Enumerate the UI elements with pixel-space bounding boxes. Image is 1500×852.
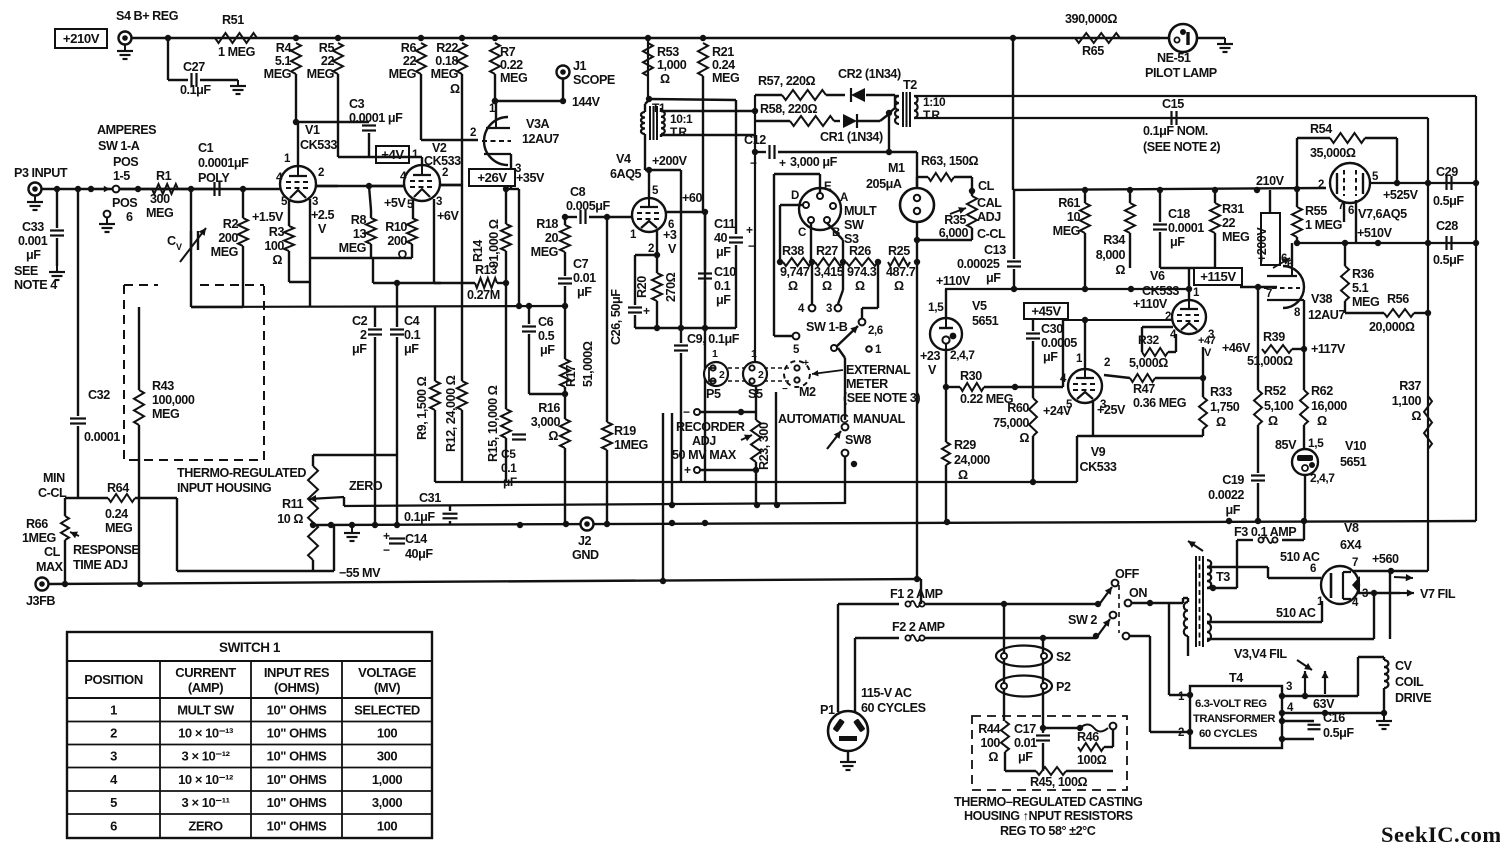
svg-text:R65: R65 bbox=[1082, 44, 1104, 58]
svg-text:AUTOMATIC: AUTOMATIC bbox=[778, 412, 849, 426]
wire +110V row bbox=[945, 286, 1189, 292]
svg-text:R32: R32 bbox=[1138, 333, 1159, 347]
label RESPONSE TIME ADJ bbox=[73, 543, 139, 572]
svg-text:144V: 144V bbox=[572, 95, 601, 109]
svg-text:E: E bbox=[824, 181, 832, 193]
svg-text:9,747: 9,747 bbox=[780, 265, 810, 279]
diode CR1 1N34 bbox=[820, 114, 883, 144]
resistor R56 bbox=[1345, 292, 1431, 334]
capacitor C14 bbox=[383, 529, 433, 561]
capacitor C32 bbox=[70, 189, 120, 498]
wire bbox=[916, 177, 918, 187]
svg-text:C27: C27 bbox=[183, 60, 205, 74]
svg-text:6AQ5: 6AQ5 bbox=[610, 167, 642, 181]
svg-text:T3: T3 bbox=[1216, 570, 1230, 584]
wire bbox=[440, 184, 462, 186]
wire A bbox=[0, 0, 1, 1]
svg-text:R57, 220Ω: R57, 220Ω bbox=[758, 74, 816, 88]
wire M2 bus bbox=[0, 0, 1, 1]
wire T1 top row bbox=[649, 99, 736, 217]
pin 2 bbox=[1318, 179, 1324, 191]
svg-text:SeekIC.com: SeekIC.com bbox=[1381, 822, 1500, 847]
svg-text:24,000: 24,000 bbox=[954, 453, 990, 467]
svg-text:Ω: Ω bbox=[272, 253, 282, 267]
svg-text:Ω: Ω bbox=[894, 279, 904, 293]
svg-text:−: − bbox=[383, 543, 390, 557]
wire bbox=[1042, 638, 1044, 728]
svg-text:SEE: SEE bbox=[14, 264, 38, 278]
svg-text:7: 7 bbox=[1352, 557, 1358, 569]
wire bbox=[662, 413, 664, 581]
table headers bbox=[84, 665, 416, 695]
svg-text:+117V: +117V bbox=[1311, 342, 1346, 356]
svg-text:R3: R3 bbox=[269, 225, 285, 239]
resistor R47 bbox=[1104, 374, 1206, 410]
arrow mark bbox=[1188, 541, 1203, 551]
resistor R29 bbox=[942, 387, 990, 522]
svg-text:TIME ADJ: TIME ADJ bbox=[73, 558, 128, 572]
svg-text:35,000Ω: 35,000Ω bbox=[1310, 146, 1356, 160]
svg-text:MEG: MEG bbox=[500, 71, 528, 85]
pin 5 bbox=[281, 196, 289, 226]
svg-text:C4: C4 bbox=[404, 314, 420, 328]
wire S5 down bbox=[0, 0, 1, 1]
svg-text:0.0022: 0.0022 bbox=[1208, 488, 1244, 502]
pin 7 bbox=[1240, 284, 1277, 300]
svg-text:C10: C10 bbox=[714, 265, 736, 279]
label +525V bbox=[1383, 188, 1419, 202]
wire C bbox=[810, 223, 812, 262]
junction bbox=[840, 259, 846, 265]
svg-text:CK533: CK533 bbox=[1142, 284, 1179, 298]
potentiometer R11 ZERO bbox=[277, 455, 383, 571]
svg-text:+4V: +4V bbox=[381, 147, 404, 162]
svg-text:3: 3 bbox=[436, 196, 442, 208]
wire right inner bbox=[1427, 118, 1429, 571]
wire 510AC top bbox=[1207, 567, 1321, 578]
svg-text:1,000: 1,000 bbox=[657, 58, 687, 72]
svg-text:7: 7 bbox=[1266, 288, 1272, 300]
svg-text:5: 5 bbox=[652, 185, 659, 197]
svg-text:INPUT RES: INPUT RES bbox=[264, 665, 330, 680]
tube V38 12AU7 bbox=[1264, 266, 1345, 322]
svg-text:R2: R2 bbox=[223, 217, 239, 231]
svg-text:C30: C30 bbox=[1041, 322, 1063, 336]
svg-text:RESPONSE: RESPONSE bbox=[73, 543, 139, 557]
svg-text:R26: R26 bbox=[849, 244, 871, 258]
resistor R54 bbox=[1297, 122, 1397, 189]
svg-text:R60: R60 bbox=[1007, 401, 1029, 415]
wire bbox=[702, 76, 704, 211]
svg-text:OFF: OFF bbox=[1115, 567, 1140, 581]
svg-text:2,4,7: 2,4,7 bbox=[1310, 471, 1335, 485]
svg-text:V1: V1 bbox=[305, 123, 320, 137]
wire rail 482 corner bbox=[1030, 436, 1077, 485]
resistor R12 bbox=[444, 375, 467, 482]
pin 1 T4 bbox=[1169, 603, 1193, 703]
svg-text:1: 1 bbox=[1178, 691, 1185, 703]
wire rail520 corner bbox=[0, 0, 1, 1]
connector S2 bbox=[996, 646, 1071, 667]
svg-text:R51: R51 bbox=[222, 13, 244, 27]
svg-text:P3 INPUT: P3 INPUT bbox=[14, 166, 68, 180]
svg-text:R22: R22 bbox=[436, 41, 458, 55]
contact 5 bbox=[793, 333, 800, 356]
svg-text:V8: V8 bbox=[1344, 521, 1359, 535]
svg-text:COIL: COIL bbox=[1395, 675, 1424, 689]
svg-text:6: 6 bbox=[126, 210, 133, 224]
junction bbox=[645, 35, 651, 41]
diode CR2 1N34 bbox=[838, 67, 901, 102]
wire bbox=[672, 392, 776, 505]
svg-text:POS: POS bbox=[113, 155, 138, 169]
svg-text:R63, 150Ω: R63, 150Ω bbox=[921, 154, 979, 168]
label V3V4 FIL bbox=[1234, 647, 1312, 670]
wire bbox=[1040, 725, 1083, 731]
tube V5 5651 bbox=[930, 299, 999, 350]
wire bbox=[529, 393, 565, 395]
svg-text:A: A bbox=[840, 192, 848, 204]
svg-text:R18: R18 bbox=[536, 217, 558, 231]
tube V4 6AQ5 bbox=[610, 152, 666, 232]
variable capacitor Cv bbox=[167, 228, 206, 262]
capacitor C6 bbox=[522, 306, 555, 394]
svg-text:0.18: 0.18 bbox=[435, 54, 458, 68]
wire C3 row bbox=[296, 121, 369, 123]
pin 2 bbox=[316, 167, 338, 186]
svg-text:METER: METER bbox=[846, 377, 888, 391]
wire jog bbox=[506, 189, 519, 306]
switch SW2 lower bbox=[1093, 612, 1130, 640]
label +35V bbox=[516, 171, 545, 185]
svg-text:T.R.: T.R. bbox=[670, 125, 690, 139]
svg-text:8,000: 8,000 bbox=[1096, 248, 1126, 262]
svg-text:μF: μF bbox=[1043, 350, 1058, 364]
svg-text:+: + bbox=[746, 223, 753, 237]
svg-text:1MEG: 1MEG bbox=[22, 531, 57, 545]
svg-text:Ω: Ω bbox=[450, 82, 460, 96]
svg-text:1MEG: 1MEG bbox=[614, 438, 649, 452]
svg-text:+560: +560 bbox=[1372, 552, 1399, 566]
svg-text:0.0001: 0.0001 bbox=[1168, 221, 1204, 235]
wire bbox=[494, 74, 496, 101]
svg-text:2: 2 bbox=[648, 243, 654, 255]
svg-text:μF: μF bbox=[540, 343, 555, 357]
svg-text:R5: R5 bbox=[319, 41, 335, 55]
pin 5 bbox=[1372, 171, 1379, 183]
voltage box +200V vertical bbox=[1255, 190, 1280, 265]
svg-text:R7: R7 bbox=[500, 45, 516, 59]
resistor R66 bbox=[22, 498, 79, 584]
label P3 INPUT bbox=[14, 166, 68, 180]
svg-text:1,5: 1,5 bbox=[1308, 436, 1324, 450]
svg-text:Ω: Ω bbox=[822, 279, 832, 293]
connector P2 bbox=[996, 676, 1071, 697]
pin 6 bbox=[1281, 248, 1292, 266]
svg-text:63V: 63V bbox=[1313, 697, 1335, 711]
resistor R57 bbox=[755, 74, 845, 100]
connector S5 bbox=[743, 348, 767, 401]
label 1,5 V10 bbox=[1308, 436, 1324, 450]
svg-text:0.5μF: 0.5μF bbox=[1433, 253, 1464, 267]
svg-text:+: + bbox=[643, 304, 650, 318]
svg-text:1,000: 1,000 bbox=[372, 772, 403, 787]
junction bbox=[240, 186, 246, 192]
resistor R36 bbox=[1341, 243, 1380, 313]
pin 3 T4 bbox=[1279, 681, 1358, 699]
svg-text:SWITCH 1: SWITCH 1 bbox=[219, 640, 281, 655]
svg-text:C15: C15 bbox=[1162, 97, 1184, 111]
wire T3 primary top bbox=[1183, 597, 1188, 599]
transformer T2 bbox=[857, 78, 946, 127]
junction bbox=[418, 35, 424, 41]
connector MULT SW S3 bbox=[791, 181, 848, 239]
svg-text:Ω: Ω bbox=[397, 248, 407, 262]
svg-text:R54: R54 bbox=[1310, 122, 1332, 136]
svg-text:V: V bbox=[668, 242, 677, 256]
svg-text:270Ω: 270Ω bbox=[664, 272, 678, 302]
contact POS 1-5 bbox=[113, 155, 139, 192]
label +24V bbox=[1043, 404, 1072, 418]
voltage box +4V bbox=[376, 146, 409, 163]
wire bbox=[177, 498, 334, 571]
svg-text:2: 2 bbox=[360, 328, 367, 342]
junction bbox=[335, 35, 341, 41]
tube V1 CK533 bbox=[280, 123, 337, 202]
svg-text:1: 1 bbox=[110, 702, 117, 717]
svg-text:6: 6 bbox=[1281, 253, 1287, 265]
pin 4 bbox=[276, 172, 283, 184]
terminal J3FB bbox=[26, 578, 55, 609]
label V7 6AQ5 bbox=[1358, 207, 1407, 221]
wire pin3 down bbox=[0, 0, 1, 1]
svg-text:R25: R25 bbox=[888, 244, 910, 258]
resistor R5 bbox=[307, 41, 343, 81]
capacitor C4 bbox=[390, 306, 421, 525]
wire bbox=[645, 142, 681, 328]
svg-text:MEG: MEG bbox=[105, 521, 133, 535]
svg-text:R64: R64 bbox=[107, 481, 129, 495]
svg-text:2: 2 bbox=[758, 369, 764, 381]
label +46V bbox=[1222, 341, 1251, 355]
svg-text:R17: R17 bbox=[564, 365, 578, 387]
wire bbox=[1183, 598, 1188, 656]
svg-text:C8: C8 bbox=[570, 185, 586, 199]
svg-text:1: 1 bbox=[412, 149, 419, 161]
svg-text:C-CL: C-CL bbox=[38, 486, 67, 500]
wire bbox=[337, 74, 339, 157]
svg-text:10" OHMS: 10" OHMS bbox=[267, 772, 327, 787]
wire from 2-6 bbox=[862, 265, 878, 318]
pin 3 bbox=[310, 196, 318, 258]
voltage box +26V bbox=[469, 169, 515, 186]
svg-text:0.24: 0.24 bbox=[105, 507, 128, 521]
svg-text:V3,V4 FIL: V3,V4 FIL bbox=[1234, 647, 1287, 661]
svg-text:Ω: Ω bbox=[988, 750, 998, 764]
pin 1 bbox=[489, 101, 496, 121]
terminal J2 GND bbox=[572, 518, 599, 563]
resistor R31 bbox=[1210, 190, 1250, 268]
junction bbox=[135, 186, 141, 192]
wire bbox=[1202, 347, 1204, 378]
svg-text:6,000: 6,000 bbox=[939, 226, 969, 240]
svg-text:J3FB: J3FB bbox=[26, 594, 55, 608]
wire bbox=[1012, 38, 1014, 190]
pin 2 bbox=[648, 230, 657, 255]
svg-text:2: 2 bbox=[318, 167, 324, 179]
wire bbox=[654, 325, 736, 331]
resistor R35 pot bbox=[939, 191, 1003, 240]
pin 4 T4 bbox=[1279, 702, 1384, 716]
svg-text:(AMP): (AMP) bbox=[188, 680, 223, 695]
svg-text:10" OHMS: 10" OHMS bbox=[267, 749, 327, 764]
tube V2 CK533 bbox=[404, 141, 461, 201]
svg-text:+60: +60 bbox=[682, 191, 702, 205]
svg-text:6.3-VOLT REG: 6.3-VOLT REG bbox=[1195, 698, 1267, 710]
svg-text:CL: CL bbox=[44, 545, 61, 559]
wire bbox=[0, 0, 1, 1]
svg-text:C-CL: C-CL bbox=[977, 227, 1006, 241]
svg-text:F1 2 AMP: F1 2 AMP bbox=[890, 587, 943, 601]
svg-text:10" OHMS: 10" OHMS bbox=[267, 726, 327, 741]
fuse F2 2AMP bbox=[855, 620, 1096, 641]
label +200V bbox=[652, 154, 688, 168]
wire bbox=[888, 113, 890, 152]
dashed box casting bbox=[972, 716, 1127, 790]
label +510V bbox=[1357, 226, 1393, 240]
resistor R3 bbox=[264, 225, 310, 282]
svg-text:C: C bbox=[798, 227, 806, 239]
junction bbox=[54, 186, 60, 192]
svg-text:3,415: 3,415 bbox=[814, 265, 844, 279]
wire bbox=[1062, 320, 1064, 387]
pin 5 bbox=[1066, 399, 1073, 411]
svg-text:V7,6AQ5: V7,6AQ5 bbox=[1358, 207, 1407, 221]
svg-text:V: V bbox=[176, 242, 182, 252]
svg-text:1: 1 bbox=[751, 348, 757, 360]
svg-text:C16: C16 bbox=[1323, 711, 1345, 725]
wire bbox=[421, 139, 478, 141]
svg-text:R37: R37 bbox=[1399, 379, 1421, 393]
svg-text:487.7: 487.7 bbox=[886, 265, 916, 279]
switch arm SW1-B bbox=[831, 326, 858, 351]
pin 3 bbox=[1093, 399, 1106, 436]
resistor R19 bbox=[602, 217, 649, 525]
resistor R1 bbox=[146, 169, 178, 220]
junction bbox=[75, 186, 81, 192]
pin 2 bbox=[1104, 357, 1110, 369]
svg-text:R13: R13 bbox=[475, 263, 497, 277]
svg-text:R14: R14 bbox=[471, 240, 485, 262]
svg-text:CK533: CK533 bbox=[1080, 460, 1117, 474]
svg-text:V2: V2 bbox=[432, 141, 447, 155]
wire bbox=[295, 74, 297, 122]
svg-text:V7 FIL: V7 FIL bbox=[1420, 587, 1456, 601]
svg-text:+: + bbox=[803, 358, 809, 369]
svg-text:DRIVE: DRIVE bbox=[1395, 691, 1431, 705]
svg-text:+25V: +25V bbox=[1097, 403, 1126, 417]
svg-text:+47: +47 bbox=[1198, 335, 1216, 347]
svg-text:T.R.: T.R. bbox=[923, 108, 943, 122]
resistor R58 bbox=[755, 102, 840, 126]
svg-text:μF: μF bbox=[1170, 235, 1185, 249]
svg-text:(SEE NOTE 3): (SEE NOTE 3) bbox=[843, 391, 920, 405]
label THERMO CASTING bbox=[954, 795, 1143, 809]
resistor R21 bbox=[698, 43, 740, 85]
junction bbox=[914, 259, 920, 265]
svg-text:22: 22 bbox=[321, 54, 335, 68]
svg-text:TRANSFORMER: TRANSFORMER bbox=[1193, 713, 1275, 725]
svg-text:R21: R21 bbox=[712, 45, 734, 59]
svg-text:10: 10 bbox=[1067, 210, 1081, 224]
svg-text:3: 3 bbox=[826, 303, 832, 315]
svg-text:0.0005: 0.0005 bbox=[1041, 336, 1077, 350]
capacitor C19 bbox=[1208, 473, 1265, 521]
pin 1 bbox=[630, 229, 637, 241]
svg-text:R47: R47 bbox=[1133, 382, 1155, 396]
wire B bbox=[827, 223, 843, 262]
pin 6 bbox=[666, 209, 708, 231]
svg-text:V: V bbox=[1204, 347, 1212, 359]
svg-text:MEG: MEG bbox=[264, 67, 292, 81]
svg-text:C29: C29 bbox=[1436, 165, 1458, 179]
resistor R25 bbox=[886, 244, 916, 293]
svg-text:Ω: Ω bbox=[1115, 263, 1125, 277]
svg-text:2,6: 2,6 bbox=[868, 325, 883, 337]
svg-text:C11: C11 bbox=[714, 217, 736, 231]
svg-text:6: 6 bbox=[110, 819, 117, 834]
tube V9 CK533 bbox=[1068, 369, 1117, 474]
svg-text:μF: μF bbox=[716, 245, 731, 259]
wire +560 bbox=[1352, 552, 1428, 581]
wire V7 FIL bbox=[1358, 587, 1456, 601]
svg-text:R31: R31 bbox=[1222, 202, 1244, 216]
svg-text:100: 100 bbox=[264, 239, 284, 253]
svg-text:MEG: MEG bbox=[531, 245, 559, 259]
terminal J1 SCOPE bbox=[557, 59, 615, 87]
svg-text:(OHMS): (OHMS) bbox=[274, 680, 319, 695]
wire to zero bbox=[396, 283, 398, 306]
svg-text:Ω: Ω bbox=[1268, 414, 1278, 428]
pin 3 bbox=[434, 196, 442, 283]
contact POS6 bbox=[99, 211, 115, 232]
svg-text:C: C bbox=[167, 234, 176, 248]
resistor R8 bbox=[339, 210, 376, 258]
svg-text:ADJ: ADJ bbox=[692, 434, 716, 448]
ground at P3 bbox=[27, 196, 43, 210]
svg-text:R56: R56 bbox=[1387, 292, 1409, 306]
svg-text:NE-51: NE-51 bbox=[1157, 51, 1191, 65]
svg-text:R46: R46 bbox=[1077, 730, 1099, 744]
wire bbox=[1131, 600, 1183, 606]
svg-text:2: 2 bbox=[1104, 357, 1110, 369]
svg-text:5: 5 bbox=[110, 795, 117, 810]
resistor R38 bbox=[780, 244, 812, 293]
resistor R22 bbox=[431, 41, 467, 96]
svg-text:R30: R30 bbox=[960, 369, 982, 383]
capacitor C12 bbox=[0, 0, 1, 1]
label +110V bbox=[936, 274, 971, 288]
svg-text:0.22: 0.22 bbox=[500, 58, 523, 72]
wire rail 482 bbox=[435, 481, 1077, 483]
table SWITCH 1 grid bbox=[67, 632, 432, 838]
svg-text:C9, 0.1μF: C9, 0.1μF bbox=[687, 332, 740, 346]
svg-text:D: D bbox=[791, 190, 799, 202]
junction bbox=[1381, 710, 1387, 716]
svg-text:C18: C18 bbox=[1168, 207, 1190, 221]
svg-text:+23: +23 bbox=[920, 349, 940, 363]
svg-text:C12: C12 bbox=[744, 133, 766, 147]
